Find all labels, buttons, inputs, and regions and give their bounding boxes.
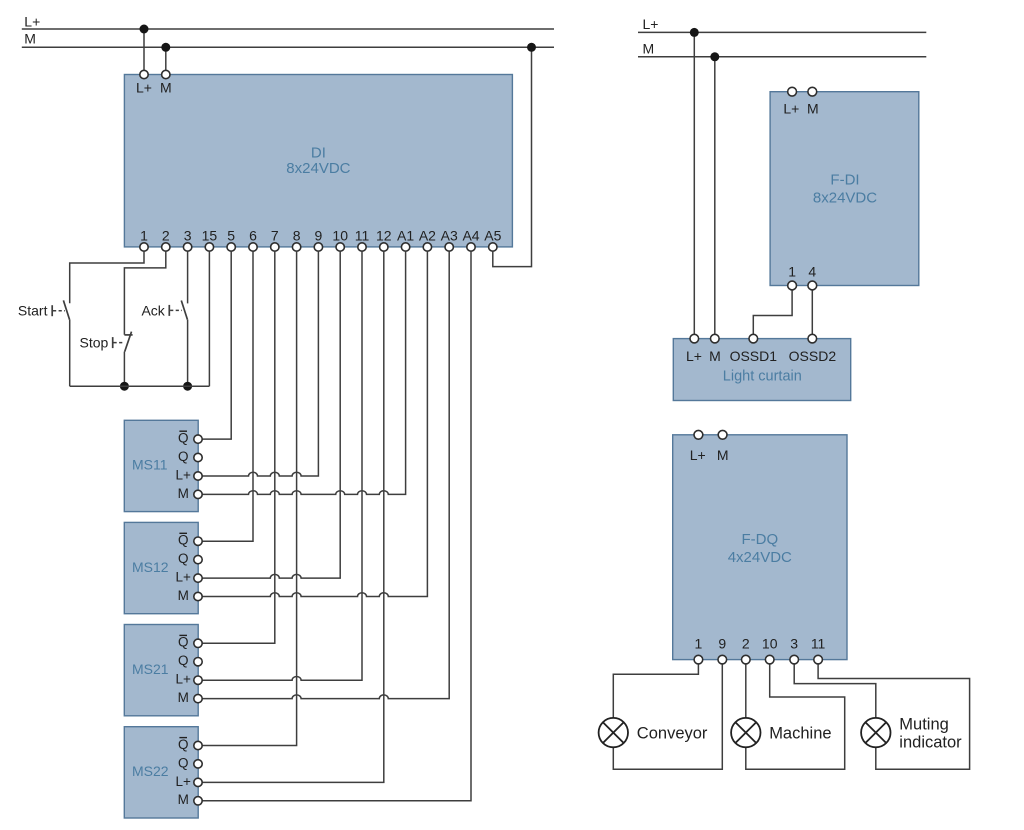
svg-text:Q: Q [178, 635, 189, 650]
wire F-DQ pin 1 to Conveyor lamp [613, 660, 698, 718]
DI terminal L+ (top) [140, 70, 148, 78]
svg-text:A5: A5 [484, 227, 501, 243]
power rail L+ (left) [22, 28, 554, 30]
wire F-DI pin 4 to OSSD2 [811, 286, 813, 339]
svg-text:L+: L+ [175, 672, 191, 687]
MS22 pin label Qbar [178, 737, 189, 752]
svg-text:M: M [160, 79, 172, 95]
sensor block MS22 [124, 727, 198, 818]
F-DI terminal L+ (top) [788, 87, 797, 96]
F-DQ title [728, 531, 792, 566]
MS22 terminal Qbar [194, 741, 202, 749]
wire DI pin 15 to common rail [208, 251, 210, 386]
svg-text:7: 7 [271, 227, 279, 243]
DI terminal 12 [380, 243, 388, 251]
DI terminal 6 [249, 243, 257, 251]
junction on M rail (right) [710, 52, 719, 61]
svg-text:M: M [717, 447, 729, 463]
svg-text:10: 10 [332, 227, 348, 243]
F-DQ terminal L+ (top) [694, 430, 703, 439]
svg-text:MS11: MS11 [132, 457, 168, 473]
svg-text:F-DQ: F-DQ [741, 531, 778, 548]
wire MS12 L+ to DI pin 10 [202, 251, 340, 578]
svg-text:8: 8 [293, 227, 301, 243]
svg-text:OSSD1: OSSD1 [730, 348, 778, 364]
module F-DI 8x24VDC [770, 92, 919, 286]
svg-text:8x24VDC: 8x24VDC [286, 160, 350, 177]
wire MS21 M to DI pin A3 [202, 251, 449, 698]
lamp Machine [731, 718, 760, 747]
svg-text:Q: Q [178, 737, 189, 752]
svg-text:M: M [178, 690, 189, 705]
svg-text:9: 9 [718, 636, 726, 652]
svg-text:Q: Q [178, 533, 189, 548]
MS12 terminal M [194, 592, 202, 600]
sensor block MS12 [124, 522, 198, 613]
svg-text:MS12: MS12 [132, 559, 169, 575]
DI terminal M (top) [162, 70, 170, 78]
MS21 terminal L+ [194, 676, 202, 684]
svg-text:L+: L+ [686, 348, 702, 364]
switch Ack (NO contact) [169, 301, 187, 320]
F-DQ terminal M (top) [718, 430, 727, 439]
F-DI title [813, 172, 877, 207]
svg-text:3: 3 [184, 227, 192, 243]
MS22 terminal M [194, 797, 202, 805]
DI terminal A1 [401, 243, 409, 251]
switch Stop (NC contact) [113, 332, 133, 352]
svg-text:L+: L+ [175, 570, 191, 585]
MS12 terminal Q [194, 555, 202, 563]
MS11 terminal L+ [194, 472, 202, 480]
F-DQ terminal 3 (bottom) [790, 655, 799, 664]
wire M rail to light curtain [714, 57, 716, 339]
junction Stop / bottom rail [120, 382, 129, 391]
junction on L+ rail (right) [690, 28, 699, 37]
svg-text:OSSD2: OSSD2 [789, 348, 837, 364]
svg-text:L+: L+ [175, 467, 191, 482]
module DI 8x24VDC [124, 75, 512, 247]
svg-text:Q: Q [178, 755, 189, 770]
wire DI pin 2 to Stop contact [124, 251, 165, 334]
DI terminal 7 [271, 243, 279, 251]
svg-text:Q: Q [178, 653, 189, 668]
F-DI terminal 4 (bottom) [808, 281, 817, 290]
svg-text:A2: A2 [419, 227, 436, 243]
wire DI pin 3 to Ack contact [187, 251, 189, 303]
wire L+ rail to DI terminal L+ [143, 29, 145, 75]
wire Conveyor lamp to F-DQ pin 9 [613, 660, 722, 770]
wire MS22 L+ to DI pin 12 [202, 251, 384, 782]
wire F-DI pin 1 to OSSD1 [753, 286, 792, 339]
wire MS21 Qbar to DI pin 7 [202, 251, 275, 643]
light curtain terminal M [711, 334, 720, 343]
DI terminal 10 [336, 243, 344, 251]
module F-DQ 4x24VDC [673, 435, 847, 660]
svg-text:2: 2 [162, 227, 170, 243]
svg-text:A3: A3 [441, 227, 458, 243]
svg-text:MS22: MS22 [132, 763, 169, 779]
DI terminal 2 [162, 243, 170, 251]
MS11 terminal Qbar [194, 435, 202, 443]
svg-text:11: 11 [355, 227, 370, 243]
svg-text:M: M [24, 31, 36, 47]
F-DQ terminal 1 (bottom) [694, 655, 703, 664]
svg-text:L+: L+ [24, 13, 40, 29]
svg-text:Muting: Muting [899, 715, 949, 733]
DI terminal 9 [314, 243, 322, 251]
junction Ack / bottom rail [183, 382, 192, 391]
svg-text:3: 3 [790, 636, 798, 652]
svg-text:Q: Q [178, 551, 189, 566]
svg-text:L+: L+ [690, 447, 706, 463]
svg-text:Conveyor: Conveyor [637, 724, 708, 742]
wire Stop contact to bottom rail [123, 352, 125, 387]
svg-text:2: 2 [742, 636, 750, 652]
svg-text:6: 6 [249, 227, 257, 243]
lamp Conveyor [599, 718, 628, 747]
svg-text:12: 12 [376, 227, 392, 243]
svg-text:M: M [178, 792, 189, 807]
MS21 pin label Qbar [178, 635, 189, 650]
wire MS11 M to DI pin A1 [202, 251, 406, 494]
DI title [286, 145, 350, 178]
F-DI terminal M (top) [808, 87, 817, 96]
svg-text:indicator: indicator [899, 733, 962, 751]
MS12 terminal Qbar [194, 537, 202, 545]
power rail M (right) [638, 56, 926, 58]
light curtain terminal OSSD1 [749, 334, 758, 343]
DI terminal 5 [227, 243, 235, 251]
svg-text:Light curtain: Light curtain [723, 369, 802, 385]
svg-text:L+: L+ [643, 16, 659, 32]
wire common rail of switches [70, 385, 210, 387]
svg-text:M: M [709, 348, 721, 364]
svg-text:8x24VDC: 8x24VDC [813, 189, 877, 206]
wire M rail to DI terminal M [165, 47, 167, 74]
lamp Muting indicator [861, 718, 890, 747]
svg-text:L+: L+ [175, 774, 191, 789]
DI terminal 8 [292, 243, 300, 251]
DI terminal 11 [358, 243, 366, 251]
svg-text:Ack: Ack [141, 303, 165, 319]
block Light curtain [673, 339, 850, 401]
MS21 terminal Qbar [194, 639, 202, 647]
light curtain terminal OSSD2 [808, 334, 817, 343]
light curtain terminal L+ [690, 334, 699, 343]
F-DI terminal 1 (bottom) [788, 281, 797, 290]
svg-text:A1: A1 [397, 227, 414, 243]
svg-text:Stop: Stop [79, 334, 108, 350]
svg-text:9: 9 [315, 227, 323, 243]
wire MS12 Qbar to DI pin 6 [202, 251, 253, 541]
F-DQ terminal 11 (bottom) [814, 655, 823, 664]
wire Muting lamp to F-DQ pin 11 [818, 660, 970, 770]
wire Machine lamp to F-DQ pin 10 [746, 660, 845, 770]
MS21 terminal M [194, 694, 202, 702]
power rail L+ (right) [638, 31, 926, 33]
MS12 pin label Qbar [178, 533, 189, 548]
label Muting indicator [899, 715, 962, 751]
svg-text:1: 1 [788, 263, 796, 279]
wire MS11 L+ to DI pin 9 [202, 251, 318, 476]
svg-text:DI: DI [311, 145, 326, 162]
F-DQ terminal 10 (bottom) [765, 655, 774, 664]
switch Start (NO contact) [52, 300, 69, 319]
DI terminal 3 [183, 243, 191, 251]
wire Ack contact to bottom rail [187, 320, 189, 386]
wire MS21 L+ to DI pin 11 [202, 251, 362, 680]
DI terminal A2 [423, 243, 431, 251]
F-DQ terminal 2 (bottom) [742, 655, 751, 664]
svg-text:1: 1 [695, 636, 703, 652]
svg-text:M: M [178, 486, 189, 501]
svg-text:10: 10 [762, 636, 778, 652]
svg-text:MS21: MS21 [132, 661, 169, 677]
F-DQ terminal 9 (bottom) [718, 655, 727, 664]
junction on L+ rail [140, 25, 149, 34]
svg-text:1: 1 [140, 227, 148, 243]
wire MS22 M to DI pin A4 [202, 251, 471, 801]
svg-text:11: 11 [811, 636, 826, 652]
wire DI pin 1 to Start contact [70, 251, 144, 303]
light curtain terminal labels [686, 348, 836, 364]
DI terminal 15 [205, 243, 213, 251]
MS22 terminal Q [194, 760, 202, 768]
power rail M (left) [22, 46, 554, 48]
svg-text:Start: Start [18, 303, 48, 319]
wire MS11 Qbar to DI pin 5 [202, 251, 231, 439]
MS11 terminal Q [194, 453, 202, 461]
svg-text:L+: L+ [136, 79, 152, 95]
svg-text:F-DI: F-DI [830, 172, 859, 189]
MS22 terminal L+ [194, 778, 202, 786]
svg-text:Q: Q [178, 431, 189, 446]
DI terminal A3 [445, 243, 453, 251]
MS11 terminal M [194, 490, 202, 498]
DI terminal A4 [467, 243, 475, 251]
svg-text:A4: A4 [462, 227, 479, 243]
svg-text:L+: L+ [783, 100, 799, 116]
MS12 terminal L+ [194, 574, 202, 582]
F-DI terminal labels L+ M [783, 100, 818, 116]
svg-text:M: M [643, 40, 655, 56]
svg-text:M: M [807, 100, 819, 116]
wire F-DQ pin 3 to Muting lamp [794, 660, 876, 718]
MS21 terminal Q [194, 658, 202, 666]
F-DQ terminal labels L+ M [690, 447, 729, 463]
sensor block MS21 [124, 625, 198, 716]
svg-text:Machine: Machine [769, 724, 831, 742]
wire MS12 M to DI pin A2 [202, 251, 427, 596]
DI terminal 1 [140, 243, 148, 251]
wire MS22 Qbar to DI pin 8 [202, 251, 297, 745]
wire Start contact to bottom rail [69, 320, 71, 387]
svg-text:Q: Q [178, 449, 189, 464]
junction A5 wire / M rail [527, 43, 536, 52]
svg-text:M: M [178, 588, 189, 603]
wire L+ rail to light curtain [693, 32, 695, 338]
junction on M rail [161, 43, 170, 52]
DI terminal A5 [489, 243, 497, 251]
svg-text:4: 4 [808, 263, 816, 279]
sensor block MS11 [124, 420, 198, 511]
svg-text:5: 5 [227, 227, 235, 243]
svg-text:4x24VDC: 4x24VDC [728, 549, 792, 566]
MS11 pin label Qbar [178, 431, 189, 446]
wire DI pin A5 to M rail [493, 47, 532, 266]
wire F-DQ pin 2 to Machine lamp [745, 660, 747, 718]
svg-text:15: 15 [202, 227, 218, 243]
